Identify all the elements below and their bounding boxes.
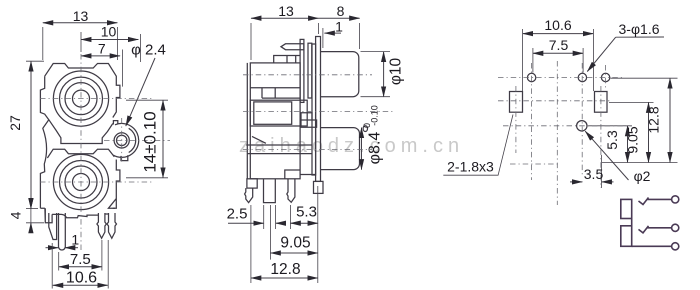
pin bracket between cylinders xyxy=(301,113,317,128)
wire 2 xyxy=(648,227,672,229)
svg-text:φ8.4: φ8.4 xyxy=(367,132,384,165)
pin P1 flat tab xyxy=(49,213,57,240)
switch check mark 2 xyxy=(639,226,649,233)
svg-text:5.3: 5.3 xyxy=(296,204,317,221)
svg-text:7.5: 7.5 xyxy=(70,251,91,268)
svg-text:10.6: 10.6 xyxy=(66,269,97,286)
pad slot 1.8x3 right xyxy=(595,92,608,113)
L dim 13 xyxy=(43,22,118,24)
svg-text:4: 4 xyxy=(8,211,24,219)
washer plate B xyxy=(308,43,312,98)
svg-text:3-φ1.6: 3-φ1.6 xyxy=(619,21,660,37)
svg-text:10.6: 10.6 xyxy=(544,17,571,33)
pin P3 xyxy=(97,213,107,238)
svg-text:9.05: 9.05 xyxy=(280,235,310,252)
svg-text:1: 1 xyxy=(71,232,79,248)
svg-text:φ10: φ10 xyxy=(388,57,405,85)
svg-text:10: 10 xyxy=(101,23,117,39)
M dim 12.8 xyxy=(251,277,318,279)
svg-text:12.8: 12.8 xyxy=(646,106,662,133)
L gear boss horizontal centerline xyxy=(104,139,170,141)
flange bottom peg xyxy=(314,181,324,193)
interior chamfer diagonal xyxy=(252,136,266,143)
F col left hole xyxy=(531,63,533,180)
F leader 3-phi1.6 xyxy=(616,36,664,38)
interior contact rect lower xyxy=(250,100,307,126)
F dim 3.5 xyxy=(570,181,582,183)
lower jack concentric circles xyxy=(53,154,108,209)
svg-text:3.5: 3.5 xyxy=(584,166,604,182)
lower phi8.4 cylinder xyxy=(321,128,360,170)
jack contact rect lower xyxy=(621,226,632,247)
upper phi10 cylinder xyxy=(321,52,359,97)
terminal circle 1 xyxy=(672,196,679,203)
L dim 7.5 xyxy=(59,266,102,268)
right pin (barbed) xyxy=(287,179,295,203)
svg-text:7.5: 7.5 xyxy=(549,37,569,53)
svg-text:2.5: 2.5 xyxy=(227,206,248,223)
switch check mark 1 xyxy=(639,198,649,205)
mounting flange xyxy=(316,37,321,182)
hole phi1.6 left xyxy=(527,73,535,81)
F dim 10.6 xyxy=(523,33,594,35)
svg-text:27: 27 xyxy=(7,115,23,131)
center positioning pillar 2.5 wide xyxy=(264,179,276,203)
gear boss outer arc xyxy=(113,123,138,157)
L dim 14±0.10 xyxy=(162,100,164,178)
top bent tab xyxy=(281,44,304,50)
M dim 1 leader xyxy=(324,32,341,34)
svg-text:7: 7 xyxy=(98,41,106,57)
mounting foot left (dim 4) xyxy=(45,208,52,223)
raised top portion xyxy=(274,56,300,63)
back wall double line xyxy=(246,63,248,179)
upper jack concentric circles xyxy=(53,71,108,126)
L dim 10.6 xyxy=(53,284,108,286)
L lower jack horizontal centerline xyxy=(40,181,152,183)
L upper jack horizontal centerline xyxy=(40,98,152,100)
svg-text:9.05: 9.05 xyxy=(625,126,641,153)
F row pads xyxy=(498,100,610,102)
body bottom edge xyxy=(40,208,115,218)
F dim 5.3 xyxy=(627,126,629,163)
thin plate C xyxy=(312,44,316,175)
small pin tip ellipse xyxy=(363,126,367,132)
F row top holes xyxy=(498,77,625,79)
M middle pin centerline xyxy=(243,111,395,113)
hole phi2 center xyxy=(577,121,587,131)
F leader phi2 xyxy=(585,131,628,180)
gear boss inner arc xyxy=(129,128,136,152)
L leader phi2.4 xyxy=(126,58,155,126)
L dim 27 xyxy=(30,61,32,208)
F ext for 3.5 xyxy=(601,155,603,188)
F dim 9.05 xyxy=(648,102,650,162)
upper gear-square body outline xyxy=(40,64,120,209)
M dim phi10 xyxy=(383,52,385,97)
svg-text:-0.10: -0.10 xyxy=(370,105,380,126)
mounting pin gear boss phi2.4 tooth xyxy=(113,121,117,125)
gear boss hole rings xyxy=(114,133,129,148)
terminal circle 3 xyxy=(672,243,679,250)
M dim 5.3 xyxy=(290,222,318,224)
M dim phi8.4 xyxy=(361,128,363,170)
washer plate A xyxy=(300,39,304,102)
hole phi1.6 middle xyxy=(578,73,586,81)
M dim 9.05 xyxy=(270,252,317,254)
interior contact lines upper xyxy=(250,88,300,98)
svg-text:13: 13 xyxy=(73,8,89,24)
M lower cylinder centerline xyxy=(243,148,372,150)
svg-text:φ2: φ2 xyxy=(634,168,651,184)
svg-text:13: 13 xyxy=(278,3,294,19)
L dim 7 xyxy=(81,55,120,57)
L dim 10 xyxy=(81,39,138,41)
svg-text:14±0.10: 14±0.10 xyxy=(141,111,160,172)
F row bottom xyxy=(510,163,560,165)
L vertical centerline xyxy=(80,54,82,252)
upper square bottom recess line xyxy=(49,120,113,144)
jack contact rect upper xyxy=(621,199,632,218)
wire 3 from lower contact xyxy=(632,245,672,247)
bottom step lines xyxy=(285,170,316,179)
M dim 2.5 xyxy=(228,222,264,224)
svg-text:8: 8 xyxy=(337,3,345,19)
F col right pad xyxy=(600,86,602,188)
F row phi2 xyxy=(503,125,632,127)
left pin (barbed) xyxy=(245,188,253,203)
lower gear-square top tabs xyxy=(47,149,114,158)
svg-text:1: 1 xyxy=(335,19,343,35)
F col middle hole xyxy=(581,63,583,177)
svg-text:12.8: 12.8 xyxy=(270,261,300,278)
main body block side view xyxy=(250,63,300,179)
svg-text:φ 2.4: φ 2.4 xyxy=(131,42,166,59)
left foot xyxy=(247,179,257,188)
wire 1 xyxy=(648,198,672,200)
pin P2 round contact xyxy=(59,213,66,250)
pad slot 1.8x3 left xyxy=(510,92,523,113)
lower gear-square right side xyxy=(108,160,120,209)
L dim 1 xyxy=(46,247,59,249)
connecting stem between contacts xyxy=(631,219,633,226)
M upper cylinder centerline xyxy=(243,74,372,76)
M dim 13 xyxy=(251,17,319,19)
pin P4 xyxy=(107,213,117,238)
F col center axis xyxy=(556,61,558,205)
L gear boss vertical centerline xyxy=(121,118,123,162)
F col right hole xyxy=(605,65,607,89)
F col left pad xyxy=(515,86,517,153)
F leader 2-1.8x3 xyxy=(443,115,513,176)
L dim 4 xyxy=(30,199,32,209)
terminal circle 2 xyxy=(672,224,679,231)
interior split lines xyxy=(246,145,312,154)
F dim 12.8 xyxy=(669,78,671,162)
M dim 8 xyxy=(319,17,360,19)
gear boss bottom tab xyxy=(121,155,128,160)
svg-text:5.3: 5.3 xyxy=(604,130,620,150)
F dim 7.5 xyxy=(533,52,583,54)
svg-text:2-1.8x3: 2-1.8x3 xyxy=(447,159,494,175)
raised top divider lines xyxy=(287,56,296,63)
hole phi1.6 right xyxy=(601,73,609,81)
